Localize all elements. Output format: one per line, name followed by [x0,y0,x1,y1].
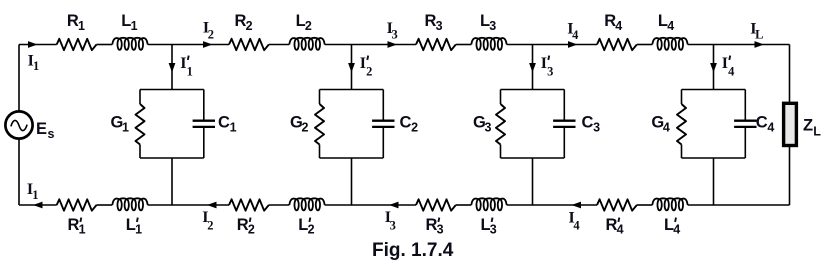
svg-text:I: I [360,55,366,72]
svg-text:4: 4 [767,121,774,135]
svg-text:3: 3 [390,219,396,233]
svg-text:4: 4 [615,19,622,33]
svg-text:I: I [722,55,728,72]
svg-text:1: 1 [33,59,39,73]
svg-text:4: 4 [667,19,674,33]
svg-text:1: 1 [32,188,38,202]
svg-text:C: C [582,113,594,131]
svg-text:C: C [218,113,230,131]
svg-text:1: 1 [187,64,193,78]
svg-text:4: 4 [617,223,624,237]
svg-text:3: 3 [485,121,492,135]
svg-text:4: 4 [728,64,735,78]
svg-text:L: L [755,28,763,42]
svg-text:2: 2 [208,27,214,41]
svg-text:1: 1 [135,223,142,237]
svg-text:s: s [48,127,55,141]
svg-text:4: 4 [573,219,580,233]
svg-text:I: I [180,55,186,72]
svg-text:C: C [400,113,412,131]
svg-text:2: 2 [305,19,312,33]
svg-text:I: I [541,55,547,72]
svg-text:2: 2 [411,121,418,135]
svg-text:C: C [756,113,768,131]
svg-text:1: 1 [79,223,86,237]
svg-text:2: 2 [308,223,315,237]
svg-text:2: 2 [246,19,253,33]
svg-text:2: 2 [207,219,213,233]
svg-text:3: 3 [593,121,600,135]
svg-text:2: 2 [248,223,255,237]
svg-text:2: 2 [366,64,372,78]
svg-text:1: 1 [78,19,85,33]
svg-text:Fig. 1.7.4: Fig. 1.7.4 [372,240,454,261]
svg-text:3: 3 [547,64,553,78]
svg-text:3: 3 [392,28,398,42]
svg-text:3: 3 [490,223,497,237]
svg-text:E: E [36,120,47,138]
svg-text:1: 1 [230,121,237,135]
svg-text:1: 1 [122,121,129,135]
svg-text:4: 4 [673,223,680,237]
svg-text:3: 3 [436,19,443,33]
svg-text:L: L [813,124,821,138]
svg-text:4: 4 [663,121,670,135]
svg-text:4: 4 [572,28,579,42]
svg-text:3: 3 [489,19,496,33]
svg-text:1: 1 [131,19,138,33]
svg-text:3: 3 [437,223,444,237]
svg-text:Z: Z [803,117,813,135]
svg-text:2: 2 [302,121,309,135]
